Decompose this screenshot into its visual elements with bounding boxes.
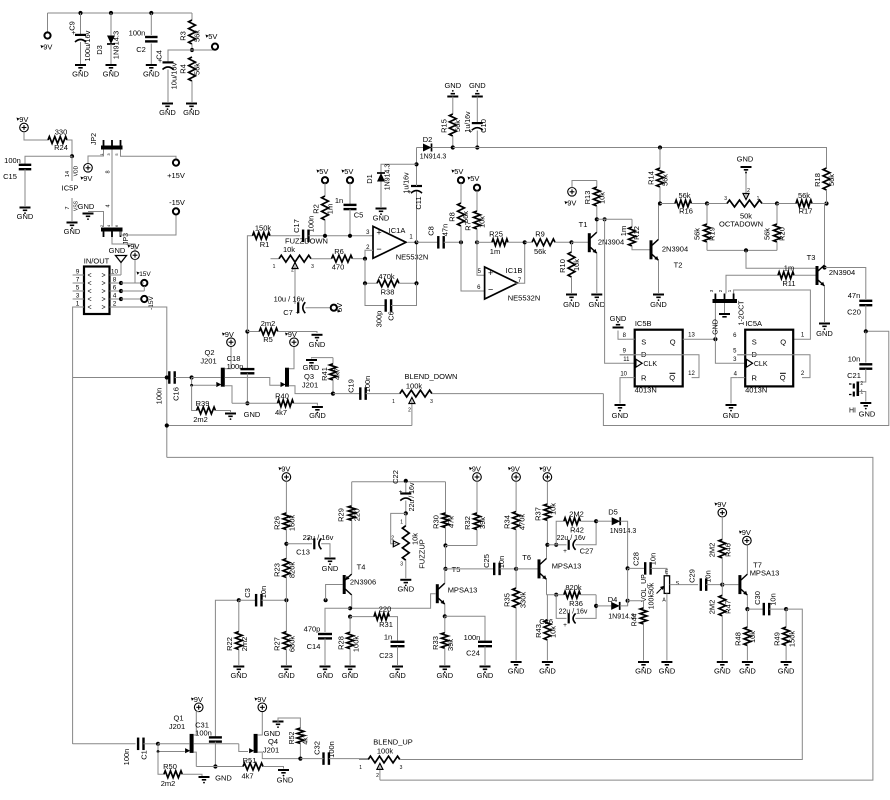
svg-text:OCTADOWN: OCTADOWN bbox=[719, 220, 763, 229]
svg-text:C25: C25 bbox=[482, 554, 491, 568]
svg-text:GND: GND bbox=[17, 212, 34, 221]
svg-text:R25: R25 bbox=[489, 230, 503, 239]
svg-text:2: 2 bbox=[376, 773, 379, 779]
svg-text:3: 3 bbox=[400, 765, 403, 771]
svg-text:C13: C13 bbox=[296, 548, 310, 557]
wire Q2 out step to Q3 gate bbox=[247, 378, 280, 386]
diode D2 1N914.3 bbox=[417, 135, 453, 161]
svg-text:10k: 10k bbox=[478, 216, 487, 228]
svg-text:IC1B: IC1B bbox=[506, 266, 523, 275]
svg-text:+: + bbox=[306, 536, 310, 543]
resistor R26 160k bbox=[273, 513, 297, 544]
svg-text:GND: GND bbox=[612, 411, 629, 420]
svg-text:220: 220 bbox=[379, 605, 392, 614]
svg-text:MPSA13: MPSA13 bbox=[448, 586, 478, 595]
svg-text:160k: 160k bbox=[288, 515, 297, 532]
supply +9V T7 bbox=[739, 528, 751, 545]
svg-text:3: 3 bbox=[400, 562, 403, 568]
svg-text:C14: C14 bbox=[307, 642, 321, 651]
svg-text:15V: 15V bbox=[139, 271, 151, 278]
svg-text:GND: GND bbox=[230, 671, 247, 680]
svg-text:100k: 100k bbox=[351, 636, 360, 653]
diode D3 1N914.3 bbox=[95, 13, 121, 64]
svg-text:2: 2 bbox=[391, 536, 394, 542]
header left pins 9 7 5 3 1 bbox=[73, 269, 84, 308]
node R15 rail bbox=[451, 145, 455, 149]
capacitor C28 10n bbox=[628, 552, 667, 576]
svg-text:10n: 10n bbox=[259, 586, 268, 599]
wire Q2 gate bbox=[190, 378, 216, 387]
svg-text:C5: C5 bbox=[354, 211, 364, 220]
svg-text:JP2: JP2 bbox=[91, 133, 98, 145]
resistor R13 10k bbox=[583, 181, 607, 220]
svg-text:5V: 5V bbox=[470, 174, 479, 183]
resistor R31 220 bbox=[350, 605, 397, 641]
wire to C15 bbox=[25, 156, 72, 164]
IC5A pin 1 Q bbox=[801, 332, 805, 338]
supply +9V Q3 bbox=[285, 330, 298, 347]
svg-text:150k: 150k bbox=[787, 631, 796, 648]
svg-text:470: 470 bbox=[332, 263, 345, 272]
svg-text:R19: R19 bbox=[708, 227, 717, 241]
ground VOL_UP bbox=[659, 662, 676, 676]
wire pin1 long input bus left side bbox=[73, 307, 84, 744]
IC5B pin 11 CLK bbox=[623, 357, 630, 363]
ground flag pin10 bbox=[109, 246, 127, 275]
wire op-amp pin2 R6 bbox=[365, 250, 373, 259]
svg-text:5V: 5V bbox=[454, 167, 463, 176]
svg-text:2m2: 2m2 bbox=[161, 779, 176, 788]
supply +9V R46 bbox=[715, 500, 727, 539]
svg-text:R8: R8 bbox=[448, 212, 457, 222]
node input C16 bbox=[165, 375, 169, 379]
resistor R12 1m bbox=[619, 219, 650, 250]
ground R28 bbox=[342, 667, 359, 681]
svg-text:GND: GND bbox=[278, 671, 295, 680]
svg-text:9V: 9V bbox=[542, 465, 551, 474]
svg-text:GND: GND bbox=[322, 564, 339, 573]
svg-text:Q: Q bbox=[670, 338, 676, 347]
svg-text:>: > bbox=[101, 305, 105, 312]
svg-text:C8: C8 bbox=[427, 226, 436, 236]
svg-text:R34: R34 bbox=[502, 515, 511, 529]
resistor R38 470k bbox=[365, 242, 417, 296]
svg-text:R38: R38 bbox=[381, 288, 395, 297]
wire clock drop to IC5B CLK bbox=[605, 219, 635, 363]
svg-text:2: 2 bbox=[291, 268, 294, 274]
wire fuzzup wiper loop bbox=[391, 513, 406, 546]
svg-text:C2: C2 bbox=[136, 45, 146, 54]
svg-text:GND: GND bbox=[539, 667, 556, 676]
svg-text:<: < bbox=[87, 289, 91, 296]
svg-text:56k: 56k bbox=[661, 174, 670, 186]
svg-text:GND: GND bbox=[737, 155, 754, 164]
capacitor C23 1n bbox=[379, 633, 404, 666]
svg-text:MPSA13: MPSA13 bbox=[750, 569, 780, 578]
svg-text:56k: 56k bbox=[678, 191, 690, 200]
resistor R19 56k bbox=[693, 204, 717, 251]
supply +9V T1 R13 bbox=[565, 181, 597, 208]
node T5 collector bbox=[443, 567, 447, 571]
svg-text:2m2: 2m2 bbox=[261, 319, 276, 328]
svg-text:R49: R49 bbox=[772, 632, 781, 646]
svg-text:+: + bbox=[563, 622, 567, 629]
potentiometer BLEND_UP 100k bbox=[359, 737, 413, 780]
svg-text:GND: GND bbox=[309, 340, 326, 349]
svg-text:GND: GND bbox=[588, 300, 605, 309]
svg-text:1N914.3: 1N914.3 bbox=[610, 528, 637, 535]
svg-text:GND: GND bbox=[659, 667, 676, 676]
svg-text:330k: 330k bbox=[519, 592, 528, 609]
svg-text:R29: R29 bbox=[337, 508, 346, 522]
wire R7 node to IC1B pin5 bbox=[477, 242, 485, 275]
svg-text:Q: Q bbox=[669, 373, 675, 382]
IC5A pin 3 CLK bbox=[733, 357, 737, 363]
node T7 emitter bbox=[745, 607, 749, 611]
node R9/R10 T1 base bbox=[569, 240, 573, 244]
svg-text:GND: GND bbox=[723, 411, 740, 420]
op-amp IC1A NE5532N bbox=[366, 226, 428, 262]
svg-text:C32: C32 bbox=[313, 741, 322, 755]
capacitor C31 100n bbox=[195, 721, 222, 767]
resistor R44 bbox=[628, 601, 647, 661]
node R38 left bbox=[363, 281, 367, 285]
node C28 takeoff bbox=[626, 566, 630, 570]
svg-text:R52: R52 bbox=[289, 731, 296, 744]
svg-text:GND: GND bbox=[739, 667, 756, 676]
svg-text:D4: D4 bbox=[608, 595, 618, 604]
svg-text:1m: 1m bbox=[784, 264, 794, 273]
capacitor C5 1n bbox=[335, 167, 363, 236]
svg-text:GND: GND bbox=[610, 314, 627, 323]
svg-text:GND: GND bbox=[159, 108, 176, 117]
svg-text:39k: 39k bbox=[478, 517, 487, 529]
svg-text:R17: R17 bbox=[799, 207, 813, 216]
IC5A pin 5 D bbox=[733, 349, 745, 355]
svg-text:100n: 100n bbox=[155, 388, 164, 405]
ground C4 bbox=[159, 104, 176, 118]
svg-text:10: 10 bbox=[111, 269, 119, 276]
svg-text:2M2: 2M2 bbox=[707, 543, 716, 558]
wire to C4 bbox=[168, 50, 192, 62]
wire IC1A out to C8 bbox=[417, 241, 439, 243]
svg-text:GND: GND bbox=[342, 671, 359, 680]
svg-text:10n: 10n bbox=[848, 355, 861, 364]
svg-text:C22: C22 bbox=[391, 470, 400, 484]
svg-text:1: 1 bbox=[757, 196, 760, 202]
svg-text:FUZZUP: FUZZUP bbox=[418, 539, 427, 569]
ground R41 top bbox=[303, 358, 333, 372]
svg-text:GND: GND bbox=[277, 776, 294, 785]
svg-text:220: 220 bbox=[353, 509, 362, 522]
svg-text:R18: R18 bbox=[813, 173, 822, 187]
wire T1 collector to R12 bbox=[597, 218, 632, 220]
svg-text:R: R bbox=[641, 374, 647, 383]
capacitor C30 10n bbox=[747, 591, 786, 615]
ground T2 bbox=[650, 295, 667, 310]
svg-text:R50: R50 bbox=[163, 762, 177, 771]
svg-text:C15: C15 bbox=[3, 172, 17, 181]
ground D1 bbox=[373, 209, 390, 223]
svg-text:100k50k: 100k50k bbox=[649, 582, 656, 609]
svg-text:C6: C6 bbox=[387, 311, 396, 321]
resistor R41 4k7 bbox=[320, 358, 342, 394]
node Q2 source R40 bbox=[245, 401, 249, 405]
svg-text:1: 1 bbox=[860, 390, 863, 396]
resistor R52 4k7 bbox=[289, 728, 310, 759]
resistor R36 820k bbox=[547, 583, 597, 608]
svg-text:13: 13 bbox=[688, 332, 695, 338]
svg-text:22u / 16v: 22u / 16v bbox=[559, 609, 588, 616]
svg-text:GND: GND bbox=[563, 300, 580, 309]
svg-text:47n: 47n bbox=[848, 291, 861, 300]
svg-text:C21: C21 bbox=[847, 371, 861, 380]
capacitor C2 100n bbox=[129, 13, 158, 64]
svg-text:2N3904: 2N3904 bbox=[662, 245, 688, 254]
svg-text:GND: GND bbox=[397, 584, 414, 593]
IC5A pin 6 S bbox=[733, 333, 737, 339]
svg-text:2: 2 bbox=[408, 408, 411, 414]
svg-text:8: 8 bbox=[113, 277, 117, 284]
node D5 anode bbox=[594, 519, 598, 523]
svg-text:820k: 820k bbox=[565, 583, 582, 592]
wire top rail to R18 bbox=[453, 147, 827, 149]
svg-text:R48: R48 bbox=[734, 632, 743, 646]
svg-text:GND: GND bbox=[183, 108, 200, 117]
wire T4 base bbox=[326, 585, 343, 601]
svg-text:5V: 5V bbox=[344, 167, 353, 176]
svg-text:R30: R30 bbox=[432, 515, 441, 529]
svg-text:D2: D2 bbox=[423, 135, 433, 144]
capacitor C21 10n bbox=[847, 331, 872, 380]
svg-text:5V: 5V bbox=[335, 303, 344, 312]
jumper 1-2OCT bbox=[709, 289, 746, 339]
wire +9V rail lower left bbox=[352, 481, 446, 483]
svg-text:GND: GND bbox=[436, 671, 453, 680]
svg-text:J201: J201 bbox=[302, 381, 318, 390]
svg-text:T4: T4 bbox=[357, 563, 366, 572]
diode D4 1N914.3 bbox=[596, 595, 635, 621]
svg-text:+: + bbox=[563, 548, 567, 555]
svg-text:R51: R51 bbox=[243, 756, 257, 765]
svg-text:10n: 10n bbox=[497, 556, 506, 569]
capacitor C3 10n bbox=[239, 586, 287, 607]
svg-text:>: > bbox=[101, 297, 105, 304]
node opamp output bbox=[414, 240, 418, 244]
node D3 top bbox=[109, 11, 113, 15]
ground R51 bbox=[277, 770, 294, 785]
svg-text:GND: GND bbox=[713, 319, 720, 335]
svg-text:IC5P: IC5P bbox=[62, 184, 79, 193]
svg-text:R27: R27 bbox=[273, 637, 282, 651]
svg-text:GND: GND bbox=[143, 70, 160, 79]
resistor R3 56k bbox=[179, 13, 202, 50]
transistor T7 MPSA13 bbox=[722, 545, 779, 609]
node C22 rail bbox=[404, 479, 408, 483]
supply +9V R37 bbox=[540, 465, 552, 505]
svg-text:R35: R35 bbox=[502, 593, 511, 607]
label FUZZDOWN bbox=[285, 236, 328, 245]
wire Q1 out step to Q4 gate bbox=[239, 744, 248, 752]
svg-text:2N3904: 2N3904 bbox=[829, 268, 855, 277]
svg-text:10: 10 bbox=[620, 371, 627, 377]
svg-text:R22: R22 bbox=[225, 637, 234, 651]
wire R30 to T5 collector bbox=[445, 546, 447, 569]
resistor R40 4k7 bbox=[232, 392, 317, 418]
svg-text:5V: 5V bbox=[319, 167, 328, 176]
svg-text:5: 5 bbox=[76, 285, 80, 292]
svg-text:9V: 9V bbox=[511, 465, 520, 474]
resistor R8 56k bbox=[448, 167, 471, 242]
svg-text:R12: R12 bbox=[632, 226, 641, 240]
svg-text:GND: GND bbox=[469, 81, 486, 90]
svg-text:300p: 300p bbox=[375, 311, 384, 328]
svg-text:>: > bbox=[101, 273, 105, 280]
svg-text:100n: 100n bbox=[195, 729, 212, 738]
svg-text:100n: 100n bbox=[363, 376, 372, 393]
svg-text:NE5532N: NE5532N bbox=[396, 253, 429, 262]
wire JP3 left pin to GND bbox=[88, 212, 104, 229]
resistor R7 10k bbox=[464, 174, 487, 242]
capacitor C16 100n bbox=[155, 371, 192, 404]
header right pins 10 8 6 4 2 bbox=[110, 269, 122, 308]
svg-text:+: + bbox=[399, 489, 403, 496]
capacitor C8 47n bbox=[427, 224, 462, 249]
svg-text:R47: R47 bbox=[724, 600, 733, 614]
svg-text:R24: R24 bbox=[54, 143, 68, 152]
resistor R46 2M2 bbox=[707, 539, 732, 584]
resistor R25 1m bbox=[477, 230, 525, 257]
svg-text:100n: 100n bbox=[307, 216, 316, 233]
transistor Q3 J201 bbox=[281, 347, 334, 394]
resistor R50 2m2 bbox=[158, 752, 202, 789]
svg-text:GND: GND bbox=[103, 70, 120, 79]
svg-text:C28: C28 bbox=[632, 552, 641, 566]
svg-text:GND: GND bbox=[317, 671, 334, 680]
node IC1B out bbox=[523, 240, 527, 244]
wire JP2 pin1 to +9V bbox=[88, 150, 104, 164]
ground C2 bbox=[143, 65, 160, 79]
svg-text:10n: 10n bbox=[704, 570, 713, 583]
wire pin6 bbox=[119, 289, 144, 293]
svg-text:D1: D1 bbox=[365, 174, 374, 184]
node R14 R16 bbox=[658, 201, 662, 205]
resistor R39 2m2 bbox=[192, 385, 231, 424]
svg-text:R4: R4 bbox=[179, 64, 188, 74]
ground R22 bbox=[230, 667, 247, 681]
supply +9V R32 bbox=[469, 465, 481, 513]
svg-text:330: 330 bbox=[55, 128, 68, 137]
ground R49 bbox=[778, 662, 795, 676]
svg-text:R6: R6 bbox=[334, 247, 344, 256]
svg-text:GND: GND bbox=[816, 329, 833, 338]
ground 1-2OCT sideways bbox=[713, 303, 731, 335]
svg-text:1n: 1n bbox=[384, 633, 392, 642]
node T3 collector C20 bbox=[822, 265, 826, 269]
wire C28 drop to D4 bbox=[627, 568, 629, 606]
node R42 loop left bbox=[547, 543, 558, 547]
svg-text:−: − bbox=[488, 285, 493, 295]
svg-text:Q: Q bbox=[780, 338, 786, 347]
node R30 R32 bbox=[443, 543, 477, 547]
svg-text:BLEND_DOWN: BLEND_DOWN bbox=[405, 372, 458, 381]
capacitor C7 10u/16v bbox=[274, 295, 331, 318]
resistor R14 56k bbox=[647, 145, 670, 203]
svg-text:100n: 100n bbox=[464, 633, 481, 642]
svg-text:+: + bbox=[469, 129, 473, 136]
svg-text:12: 12 bbox=[688, 371, 695, 377]
svg-text:680k: 680k bbox=[288, 636, 297, 653]
svg-text:R2: R2 bbox=[312, 204, 321, 214]
svg-text:1N914.3: 1N914.3 bbox=[112, 31, 121, 59]
ground R5 bbox=[309, 335, 326, 349]
svg-text:100n: 100n bbox=[4, 156, 21, 165]
svg-text:NE5532N: NE5532N bbox=[508, 294, 541, 303]
svg-text:T2: T2 bbox=[674, 261, 683, 270]
ground IC5P VSS bbox=[64, 223, 81, 237]
svg-text:VOL_UP: VOL_UP bbox=[641, 574, 648, 602]
svg-text:R11: R11 bbox=[782, 279, 795, 288]
potentiometer OCTADOWN 50k bbox=[707, 170, 777, 229]
ground R52 top bbox=[264, 718, 301, 738]
svg-text:10u/16v: 10u/16v bbox=[170, 62, 179, 89]
ground R44 bbox=[635, 662, 652, 676]
IC5B pin 8 S bbox=[623, 333, 635, 339]
svg-text:9V: 9V bbox=[19, 115, 28, 124]
wire R1 input drop bbox=[247, 236, 252, 332]
wire JP2 center to JP3 bbox=[106, 150, 113, 227]
svg-text:1m: 1m bbox=[490, 247, 500, 256]
node D4 branch bbox=[594, 604, 598, 608]
capacitor C29 10n bbox=[670, 569, 723, 591]
svg-text:C29: C29 bbox=[688, 569, 697, 583]
svg-text:7: 7 bbox=[65, 206, 71, 209]
node C16/Q2 gate bbox=[190, 375, 194, 379]
svg-text:100n: 100n bbox=[129, 29, 146, 38]
svg-text:C23: C23 bbox=[379, 651, 393, 660]
svg-text:GND: GND bbox=[78, 202, 95, 211]
svg-text:4k7: 4k7 bbox=[333, 368, 342, 380]
svg-text:56k: 56k bbox=[763, 228, 772, 240]
svg-text:R31: R31 bbox=[379, 620, 393, 629]
svg-text:MPSA13: MPSA13 bbox=[552, 562, 582, 571]
svg-text:1n: 1n bbox=[335, 196, 343, 205]
IC5B pin 10 R bbox=[620, 371, 635, 403]
node R46 R47 T7 base bbox=[720, 583, 724, 587]
node C5 signal bbox=[348, 234, 352, 238]
resistor R30 47k bbox=[432, 482, 456, 546]
capacitor C14 470p bbox=[304, 608, 350, 665]
capacitor C17 100n bbox=[292, 216, 373, 242]
svg-text:R1: R1 bbox=[260, 240, 270, 249]
ground C9 bbox=[72, 65, 89, 79]
svg-text:2N3906: 2N3906 bbox=[350, 578, 376, 587]
svg-text:R41: R41 bbox=[320, 367, 329, 381]
svg-text:470k: 470k bbox=[378, 272, 395, 281]
svg-text:2: 2 bbox=[747, 188, 750, 194]
transistor T2 2N3904 bbox=[651, 204, 688, 294]
svg-text:S: S bbox=[676, 581, 680, 587]
node T6 collector bbox=[545, 543, 549, 547]
svg-text:R16: R16 bbox=[679, 207, 693, 216]
svg-text:C17: C17 bbox=[292, 219, 301, 233]
jumper JP3 bbox=[99, 224, 130, 245]
svg-text:9V: 9V bbox=[472, 465, 481, 474]
transistor Q1 J201 bbox=[158, 712, 239, 767]
IC5P VDD pin 14 bbox=[62, 156, 80, 192]
terminal +5V bbox=[192, 32, 218, 50]
svg-text:56k: 56k bbox=[193, 30, 202, 42]
